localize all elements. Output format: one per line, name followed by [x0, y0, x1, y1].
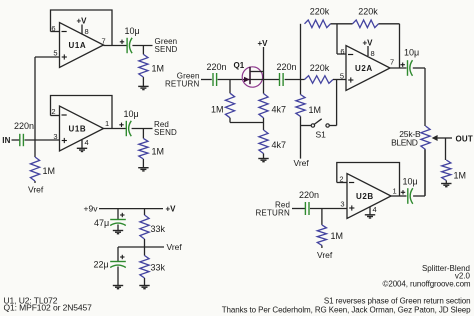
svg-text:1M: 1M — [454, 170, 467, 180]
svg-text:220k: 220k — [310, 63, 330, 73]
svg-text:S1 reverses phase of Green ret: S1 reverses phase of Green return sectio… — [324, 296, 471, 305]
svg-text:1M: 1M — [211, 105, 224, 115]
svg-text:10μ: 10μ — [124, 109, 139, 119]
svg-text:Q1: Q1 — [234, 61, 245, 70]
svg-text:Vref: Vref — [28, 185, 44, 195]
svg-text:S1: S1 — [316, 130, 327, 140]
svg-text:1M: 1M — [43, 166, 56, 176]
svg-text:4k7: 4k7 — [272, 105, 287, 115]
svg-text:1M: 1M — [152, 64, 165, 74]
svg-text:6: 6 — [51, 24, 55, 33]
svg-text:220n: 220n — [207, 62, 227, 72]
svg-text:RETURN: RETURN — [165, 80, 200, 89]
svg-text:U1B: U1B — [69, 125, 87, 134]
svg-text:Vref: Vref — [294, 158, 310, 168]
svg-text:OUT: OUT — [456, 134, 474, 143]
svg-text:33k: 33k — [151, 224, 166, 234]
svg-text:10μ: 10μ — [125, 26, 140, 36]
svg-text:220k: 220k — [310, 7, 330, 17]
svg-text:220n: 220n — [299, 190, 319, 200]
svg-text:Thanks to Per Cederholm, RG Ke: Thanks to Per Cederholm, RG Keen, Jack O… — [222, 306, 471, 315]
svg-text:SEND: SEND — [155, 45, 178, 54]
svg-text:U2B: U2B — [356, 192, 374, 201]
svg-text:Vref: Vref — [317, 250, 333, 260]
svg-text:8: 8 — [85, 27, 89, 36]
svg-text:8: 8 — [371, 49, 375, 58]
svg-text:2: 2 — [51, 107, 55, 116]
svg-text:5: 5 — [340, 72, 344, 81]
svg-text:©2004, runoffgroove.com: ©2004, runoffgroove.com — [383, 279, 471, 288]
svg-text:U2A: U2A — [355, 64, 373, 73]
svg-text:4: 4 — [85, 138, 89, 147]
svg-text:33k: 33k — [151, 263, 166, 273]
svg-text:7: 7 — [102, 36, 106, 45]
svg-text:1: 1 — [105, 119, 109, 128]
svg-text:1M: 1M — [152, 147, 165, 157]
svg-text:10μ: 10μ — [404, 48, 419, 58]
svg-text:6: 6 — [340, 47, 344, 56]
svg-text:220n: 220n — [14, 121, 34, 131]
svg-text:Q1: MPF102 or 2N5457: Q1: MPF102 or 2N5457 — [4, 302, 93, 312]
svg-text:Vref: Vref — [167, 242, 183, 252]
svg-text:47μ: 47μ — [94, 218, 109, 228]
svg-text:5: 5 — [53, 48, 57, 57]
svg-text:7: 7 — [390, 57, 394, 66]
svg-text:IN: IN — [2, 136, 10, 145]
svg-text:1: 1 — [393, 186, 397, 195]
svg-text:2: 2 — [339, 174, 343, 183]
svg-text:3: 3 — [53, 132, 57, 141]
svg-text:+V: +V — [166, 205, 177, 214]
svg-text:220n: 220n — [277, 62, 297, 72]
svg-text:BLEND: BLEND — [391, 137, 418, 147]
svg-text:220k: 220k — [358, 7, 378, 17]
svg-text:22μ: 22μ — [94, 260, 109, 270]
svg-text:+V: +V — [77, 17, 88, 26]
svg-text:10μ: 10μ — [403, 177, 418, 187]
svg-text:1M: 1M — [309, 105, 322, 115]
svg-text:4k7: 4k7 — [272, 140, 287, 150]
svg-text:3: 3 — [340, 199, 344, 208]
svg-text:+9v: +9v — [84, 204, 99, 214]
svg-text:RETURN: RETURN — [255, 208, 290, 217]
svg-text:+V: +V — [258, 39, 269, 48]
svg-text:SEND: SEND — [154, 128, 177, 137]
svg-text:U1A: U1A — [69, 41, 87, 50]
svg-text:1M: 1M — [331, 231, 344, 241]
svg-text:4: 4 — [373, 205, 377, 214]
svg-text:+V: +V — [363, 38, 374, 47]
